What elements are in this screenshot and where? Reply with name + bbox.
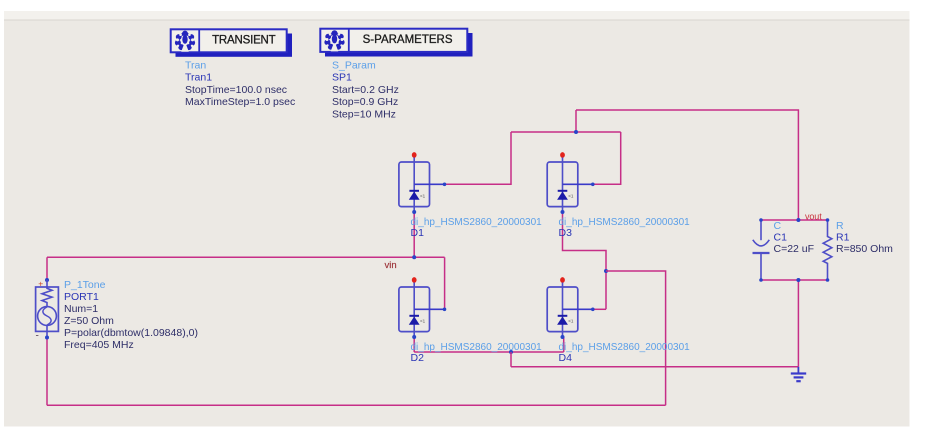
node junction dot D4 branch xyxy=(604,269,608,273)
diode D4 xyxy=(547,277,594,339)
svg-text:D4: D4 xyxy=(559,352,573,364)
svg-text:StopTime=100.0 nsec: StopTime=100.0 nsec xyxy=(185,84,287,96)
diode D1 xyxy=(399,152,446,214)
svg-text:di_hp_HSMS2860_20000301: di_hp_HSMS2860_20000301 xyxy=(559,342,691,353)
svg-text:di_hp_HSMS2860_20000301: di_hp_HSMS2860_20000301 xyxy=(559,217,691,228)
svg-text:MaxTimeStep=1.0 psec: MaxTimeStep=1.0 psec xyxy=(185,96,295,108)
svg-text:Tran: Tran xyxy=(185,60,206,72)
svg-text:R=850 Ohm: R=850 Ohm xyxy=(836,243,893,255)
wire D1 tap to riser xyxy=(445,132,512,184)
wire vin down to D2 tap xyxy=(444,257,446,309)
svg-text:P=polar(dbmtow(1.09848),0): P=polar(dbmtow(1.09848),0) xyxy=(64,327,198,339)
svg-text:C1: C1 xyxy=(774,232,788,244)
wire ground rail to ground symbol xyxy=(511,366,798,368)
ground xyxy=(791,367,806,381)
S-PARAMETERS gear icon xyxy=(324,30,344,51)
node junction dot ground bus xyxy=(509,350,513,354)
wire vout bottom down to ground rail xyxy=(797,280,799,367)
svg-text:<1: <1 xyxy=(420,194,426,199)
wire vin horizontal from port top to bridge xyxy=(47,256,445,258)
TRANSIENT controller box xyxy=(171,29,287,52)
TRANSIENT controller U-TRAN box shadow xyxy=(176,34,293,57)
svg-text:<1: <1 xyxy=(568,194,574,199)
node junction dot at upper bus xyxy=(574,130,578,134)
svg-text:-: - xyxy=(36,331,39,342)
node junction dot bottom xyxy=(796,278,800,282)
svg-text:<1: <1 xyxy=(420,319,426,324)
wire riser to top rail xyxy=(575,110,577,132)
diode D3 xyxy=(547,152,594,214)
svg-text:D3: D3 xyxy=(559,227,573,239)
svg-text:SP1: SP1 xyxy=(332,72,352,84)
wire upper bus horizontal xyxy=(511,131,621,133)
svg-text:Tran1: Tran1 xyxy=(185,72,212,84)
diode D2 xyxy=(399,277,446,339)
wire branch to right drop xyxy=(606,271,666,405)
svg-text:vout: vout xyxy=(805,212,822,222)
svg-text:D1: D1 xyxy=(411,227,425,239)
svg-text:<1: <1 xyxy=(568,319,574,324)
svg-text:TRANSIENT: TRANSIENT xyxy=(212,34,276,46)
svg-text:Start=0.2 GHz: Start=0.2 GHz xyxy=(332,84,399,96)
wire D2 cathode to ground bus xyxy=(413,337,415,352)
svg-text:PORT1: PORT1 xyxy=(64,291,99,303)
svg-text:di_hp_HSMS2860_20000301: di_hp_HSMS2860_20000301 xyxy=(411,342,543,353)
S-PARAMETERS controller box shadow xyxy=(325,33,473,57)
wire port bottom lead xyxy=(46,338,48,406)
wire D4 tap stub to riser xyxy=(593,308,606,310)
svg-text:D2: D2 xyxy=(411,352,425,364)
svg-text:Freq=405 MHz: Freq=405 MHz xyxy=(64,339,134,351)
resistor R1 xyxy=(823,218,832,282)
svg-text:S-PARAMETERS: S-PARAMETERS xyxy=(363,34,453,46)
svg-text:di_hp_HSMS2860_20000301: di_hp_HSMS2860_20000301 xyxy=(411,217,543,228)
svg-text:R1: R1 xyxy=(836,232,850,244)
svg-text:P_1Tone: P_1Tone xyxy=(64,279,106,291)
wire D3 anode down and across xyxy=(563,212,607,309)
wire port top lead xyxy=(46,257,48,280)
wire D1 anode down to vin xyxy=(413,212,415,257)
wire upper bus down to D3 tap xyxy=(593,132,621,184)
wire ground bus drop xyxy=(510,352,512,367)
capacitor C1 xyxy=(753,218,770,282)
svg-text:Stop=0.9 GHz: Stop=0.9 GHz xyxy=(332,96,398,108)
wire vout top node horizontal xyxy=(761,219,828,221)
svg-text:C: C xyxy=(774,220,782,232)
port P_1Tone PORT1 symbol xyxy=(36,278,59,342)
svg-text:Num=1: Num=1 xyxy=(64,303,98,315)
svg-text:vin: vin xyxy=(385,260,397,271)
wire vout bottom node horizontal xyxy=(761,279,828,281)
svg-text:R: R xyxy=(836,220,844,232)
TRANSIENT gear icon xyxy=(175,31,195,52)
S-PARAMETERS controller box xyxy=(320,29,467,52)
svg-text:C=22 uF: C=22 uF xyxy=(774,243,815,255)
svg-text:+: + xyxy=(38,279,43,289)
node vin junction dot xyxy=(412,255,416,259)
node vout junction dot top xyxy=(796,218,800,222)
svg-text:Z=50 Ohm: Z=50 Ohm xyxy=(64,315,114,327)
wire top rail to vout xyxy=(576,110,798,220)
svg-text:Step=10 MHz: Step=10 MHz xyxy=(332,108,396,120)
wire ground bus horizontal xyxy=(414,351,564,353)
svg-text:S_Param: S_Param xyxy=(332,60,376,72)
wire D4 cathode to ground bus xyxy=(563,337,565,352)
wire bottom return rail xyxy=(47,404,666,406)
